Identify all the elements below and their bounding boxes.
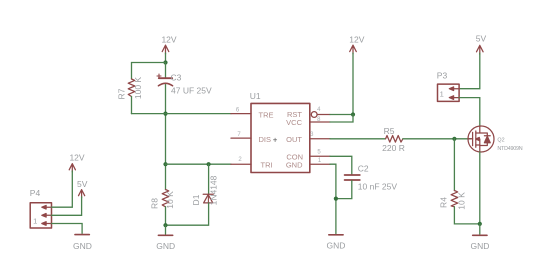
svg-text:NTD4909N: NTD4909N [497,146,522,152]
wire to ground [479,224,481,234]
wire D1 top [208,164,210,194]
svg-text:C3: C3 [171,73,182,83]
connector P3 [437,70,459,101]
svg-text:12V: 12V [161,35,176,45]
pin 1 GND [310,163,330,165]
wire P4 pin1 to ground [52,224,83,234]
svg-text:GND: GND [470,241,489,251]
svg-text:DIS: DIS [259,135,272,144]
pin 3 OUT [310,138,330,140]
wire P3 pin 2 down to drain [459,98,480,127]
supply 5V (top right) [476,33,487,54]
svg-text:5V: 5V [476,33,487,43]
pin 6 TRE [231,113,251,115]
svg-text:R5: R5 [384,126,395,136]
wire R8 bottom [165,207,167,225]
wire 12V down to RST junction [352,53,354,115]
wire source down [479,152,481,224]
wire TRI row [166,163,232,165]
node junction source/R4/GND [478,222,482,226]
svg-text:12V: 12V [349,35,364,45]
capacitor C2 [345,164,398,192]
wire OUT to R5 [330,138,386,140]
ground (at P4) [73,235,92,251]
svg-text:GND: GND [327,241,346,251]
svg-text:1N4148: 1N4148 [209,175,219,205]
svg-text:TRI: TRI [261,161,273,170]
wire R4 bottom to source column [454,207,479,224]
node junction RST/VCC [351,112,355,116]
wire R7 bottom [131,97,133,114]
resistor R5 [382,126,405,153]
svg-text:TRE: TRE [259,110,274,119]
svg-text:VCC: VCC [286,118,302,127]
pin 8 VCC [310,121,330,123]
pin 2 TRI [231,163,251,165]
supply 12V (at P4) [69,153,85,172]
wire 5V down to P3 pin 1 [459,53,480,88]
svg-text:C2: C2 [358,164,369,174]
svg-text:P4: P4 [30,188,41,198]
svg-text:R7: R7 [117,88,127,99]
wire to ground [165,225,167,234]
op IC U1 NE555 [250,91,310,173]
svg-text:GND: GND [286,161,303,170]
svg-text:R4: R4 [439,197,449,208]
svg-text:Q2: Q2 [497,137,504,143]
svg-text:P3: P3 [437,70,448,80]
svg-text:D1: D1 [191,194,201,205]
supply 12V (left, above C3/R7) [161,35,176,55]
node junction gate/R4 [452,137,456,141]
node junction R8/D1/GND [163,223,167,227]
ground (below Q2) [470,235,489,251]
wire to R7 top [132,63,166,80]
node junction C2/GND [334,197,338,201]
resistor R8 [150,190,176,209]
ground (below C2) [327,235,346,251]
wire P4 pin2 to 5V [52,197,82,216]
wire P4 pin3 to 12V [52,171,73,207]
wire TRE row [132,113,232,115]
svg-text:47 UF 25V: 47 UF 25V [171,86,212,96]
svg-text:10 K: 10 K [457,192,467,210]
wire junction to VCC [330,115,353,123]
wire 12V junction down to C3 [165,63,167,78]
wire junction down to R4 [453,139,455,191]
wire CON to C2 [330,156,352,174]
svg-text:OUT: OUT [286,135,302,144]
transistor Q2 MOSFET [468,126,523,152]
ground (below R8) [156,235,175,251]
svg-text:GND: GND [73,241,92,251]
svg-text:5V: 5V [77,179,88,189]
svg-text:R8: R8 [150,198,160,209]
svg-text:+: + [273,135,278,144]
svg-text:10 K: 10 K [165,191,175,209]
svg-text:GND: GND [156,241,175,251]
capacitor C3 [157,73,212,96]
wire pin4 to junction [330,114,353,116]
node junction TRI row left [163,162,167,166]
node junction 12V/R7/C3 [163,60,167,64]
connector P4 [30,188,52,228]
svg-text:100 K: 100 K [133,77,143,100]
diode D1 1N4148 [191,175,219,205]
resistor R4 [439,191,467,210]
svg-text:220 R: 220 R [382,143,405,153]
wire R5 to gate [403,138,471,140]
resistor R7 [117,77,144,100]
svg-text:1: 1 [440,89,444,98]
wire C3 bottom down through junctions to R8 [165,85,167,190]
svg-text:12V: 12V [69,153,84,163]
svg-text:10 nF 25V: 10 nF 25V [358,182,398,192]
pin 7 DIS [231,137,251,139]
wire pin1 GND down [330,164,336,233]
pin 4 RST with bubble [311,112,317,118]
node junction D1 top [207,162,211,166]
svg-text:1: 1 [33,216,37,225]
supply 5V (at P4) [77,179,88,198]
svg-text:U1: U1 [250,91,261,101]
wire C2 bottom [336,181,352,199]
wire D1 bottom [166,203,209,225]
supply 12V (above U1) [349,35,364,55]
node junction TRE row [163,112,167,116]
wire from 12V to junction [165,53,167,63]
pin 5 CON [310,155,330,157]
